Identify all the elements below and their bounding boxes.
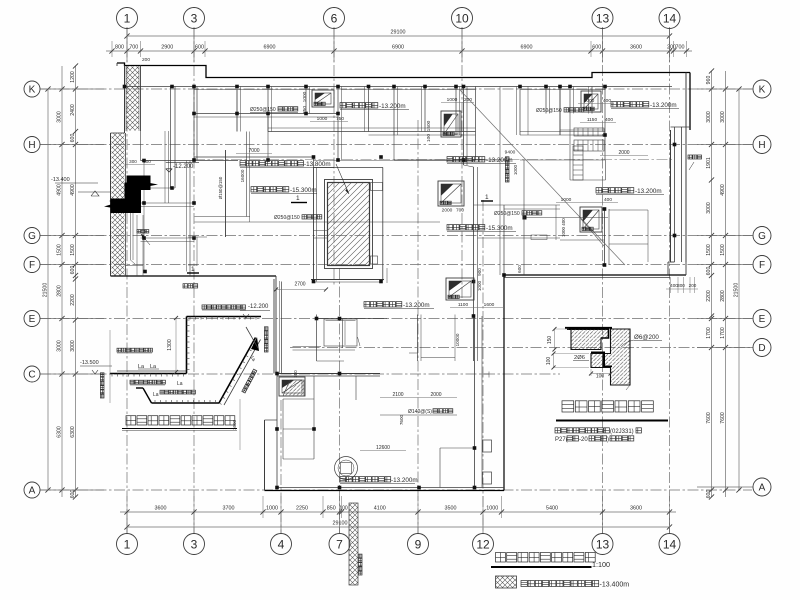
core block outer walls	[313, 168, 315, 282]
grid axis circle 4	[271, 534, 292, 555]
svg-text:600: 600	[195, 45, 204, 51]
svg-text:700: 700	[456, 208, 464, 214]
svg-text:700: 700	[676, 45, 685, 51]
svg-text:13: 13	[596, 537, 610, 551]
grid axis circle 3	[184, 534, 205, 555]
svg-text:200: 200	[142, 57, 150, 63]
right dimension chains	[711, 71, 713, 497]
svg-text:1700: 1700	[720, 327, 726, 339]
detail1 left slab line	[110, 373, 187, 375]
svg-text:1300: 1300	[167, 339, 173, 351]
lower-left block left edge	[264, 420, 266, 491]
left wing bottom edge (thick)	[111, 275, 277, 277]
svg-text:-13.400: -13.400	[51, 177, 70, 183]
partition x=175	[174, 87, 176, 189]
partition x=170.5	[170, 87, 172, 189]
partition x=520	[519, 87, 521, 136]
grid axis circle A	[24, 482, 40, 498]
svg-text:400: 400	[603, 98, 611, 104]
svg-text:Ø250@150: Ø250@150	[494, 211, 520, 217]
svg-text:3000: 3000	[720, 111, 726, 123]
partition x=475.5	[475, 87, 477, 161]
grid line G (horizontal)	[40, 235, 752, 237]
svg-text:G: G	[758, 231, 766, 242]
svg-text:Ø150@150: Ø150@150	[218, 176, 223, 199]
partition x=368.5	[368, 87, 370, 132]
svg-text:): )	[607, 437, 609, 443]
extra room walls near grid3 mid	[195, 216, 251, 218]
svg-text:10: 10	[455, 11, 469, 25]
svg-text:1500: 1500	[426, 120, 432, 131]
svg-text:3500: 3500	[445, 506, 457, 512]
svg-text:(02J331): (02J331)	[610, 429, 634, 435]
svg-text:1: 1	[191, 266, 195, 273]
bottom overall dimension 29100	[127, 526, 670, 528]
svg-text:200: 200	[689, 283, 697, 288]
svg-text:3000: 3000	[57, 340, 63, 352]
svg-text:200: 200	[293, 370, 298, 378]
sump pit symbol	[580, 207, 602, 232]
svg-text:E: E	[29, 314, 36, 325]
svg-text:200: 200	[464, 97, 472, 103]
top overall dimension 29100	[127, 35, 670, 37]
partition x=456	[455, 87, 457, 136]
sump label top-right	[611, 102, 649, 107]
leader texts small left	[117, 348, 152, 352]
grid axis circle K	[753, 80, 771, 98]
grid axis circle 1	[117, 534, 138, 555]
building bottom edge of right section (double)	[504, 274, 686, 276]
detail1 vertical drop	[186, 317, 188, 374]
svg-text:21500: 21500	[43, 283, 49, 298]
svg-text:2000: 2000	[442, 208, 453, 214]
svg-text:2800: 2800	[720, 290, 726, 302]
partition x=546	[545, 87, 547, 114]
grid line 9 (vertical)	[417, 120, 419, 533]
svg-text:-13.500: -13.500	[80, 360, 99, 366]
partition x=306	[305, 87, 307, 114]
svg-text:7000: 7000	[248, 148, 259, 154]
svg-text:900: 900	[477, 268, 482, 276]
svg-text:4100: 4100	[374, 506, 386, 512]
black wall infill middle column	[125, 183, 142, 214]
grid axis circle 10	[452, 8, 473, 29]
svg-text:29100: 29100	[333, 521, 348, 527]
vertical annotation line x=225.5	[225, 150, 227, 237]
grid line E (horizontal)	[40, 318, 752, 320]
svg-text:1500: 1500	[706, 244, 712, 256]
svg-text:3000: 3000	[706, 202, 712, 214]
svg-text:1000: 1000	[447, 97, 458, 103]
rotated annotation near x=509	[505, 157, 509, 182]
svg-text:600: 600	[70, 134, 76, 143]
wall on grid10: upper 463.5/467, jog, lower 473.5/477.5	[463, 87, 465, 166]
svg-text:12: 12	[476, 537, 490, 551]
svg-text:2200: 2200	[706, 290, 712, 302]
svg-text:4: 4	[278, 537, 285, 551]
grid line F (horizontal)	[40, 264, 752, 266]
partition x=425	[424, 87, 426, 132]
extra top-band partitions / wall doubles	[194, 89, 313, 91]
rotated side labels	[100, 373, 104, 398]
svg-text:G: G	[28, 231, 36, 242]
svg-text:2100: 2100	[392, 392, 403, 398]
text 集水坑顶标高-13.200m (top)	[340, 103, 378, 108]
svg-text:600: 600	[592, 45, 601, 51]
hatch wedge left of pump pit	[283, 380, 304, 396]
core hatched rectangle (tower core, diag hatch)	[325, 180, 373, 269]
svg-text:600: 600	[706, 490, 712, 499]
detail2 ear small hatch piece	[591, 354, 603, 368]
svg-text:9400: 9400	[505, 150, 516, 156]
svg-text:A: A	[29, 486, 36, 497]
legend hatched box	[496, 576, 517, 588]
svg-text:2900: 2900	[161, 45, 173, 51]
svg-text:-15.300m: -15.300m	[486, 225, 513, 232]
building outer wall: top-left wing	[117, 63, 690, 78]
detail2 left slab (hatched)	[567, 328, 609, 330]
label 边局部区域内筏板顶标高-13.800m	[240, 161, 304, 166]
svg-text:1000: 1000	[486, 506, 498, 512]
svg-text:1901: 1901	[706, 157, 712, 169]
svg-text:3600: 3600	[155, 506, 167, 512]
partition x=268	[267, 87, 269, 132]
sump pit symbol	[438, 181, 464, 206]
right section partitions additions	[560, 129, 605, 131]
svg-text:2Ø6: 2Ø6	[574, 355, 585, 361]
grid axis circle 3	[184, 8, 205, 29]
detail2 thick top edge	[565, 327, 612, 329]
grid axis circle H	[24, 137, 40, 153]
center court partitions	[314, 160, 476, 162]
svg-text:-13.400m: -13.400m	[600, 582, 630, 589]
top dimension chain	[106, 50, 692, 52]
svg-text:3000: 3000	[706, 111, 712, 123]
svg-text:400: 400	[604, 197, 612, 203]
svg-text:3600: 3600	[630, 45, 642, 51]
svg-text:Ø140@(S): Ø140@(S)	[408, 409, 432, 415]
building outer wall: right edge (double)	[689, 73, 691, 131]
svg-text:7600: 7600	[706, 412, 712, 424]
bottom dimension chain	[120, 511, 676, 513]
partition x=592	[591, 87, 593, 114]
svg-text:600: 600	[70, 266, 76, 275]
grid axis circle K	[24, 81, 40, 97]
svg-text:A: A	[759, 483, 766, 494]
partition x=197	[196, 87, 198, 161]
svg-text:D: D	[758, 343, 765, 354]
svg-text:E: E	[759, 314, 766, 325]
wall below grid K (top room band)	[125, 86, 673, 88]
extend walls x=570 and x=605	[569, 114, 571, 181]
grid axis circle 12	[473, 534, 494, 555]
grid axis circle C	[24, 366, 40, 382]
left dimension chains	[75, 66, 77, 497]
svg-text:1000: 1000	[477, 280, 482, 291]
construction diagonal line	[460, 90, 625, 265]
sump pit symbol	[441, 111, 461, 137]
svg-text:5400: 5400	[546, 506, 558, 512]
svg-text:29100: 29100	[391, 30, 406, 36]
partition x=570	[569, 87, 571, 114]
svg-text:H: H	[28, 140, 35, 151]
grid axis circle A	[753, 478, 771, 496]
svg-text:P27(: P27(	[555, 437, 568, 443]
horizontal partition lines top band	[194, 113, 338, 115]
grid line D (horizontal)	[290, 347, 752, 349]
black spike right	[150, 183, 158, 186]
label 集油坑顶标高-13.200m right of grid10	[447, 157, 485, 162]
left wing inner partitions	[141, 202, 195, 204]
svg-text:C: C	[28, 370, 35, 381]
main title 筏板结构平面布置图	[496, 553, 596, 563]
grid line 14 (vertical)	[669, 28, 671, 533]
step on x=483 wall	[483, 373, 489, 375]
svg-text:10000: 10000	[455, 333, 460, 346]
grid axis circle H	[753, 136, 771, 154]
svg-text:-13.200m: -13.200m	[635, 188, 662, 195]
extra centerline y=159.5	[194, 159, 672, 161]
sump pit symbol	[581, 91, 601, 112]
svg-text:14: 14	[663, 11, 677, 25]
detail1 bottom slab line	[152, 402, 220, 404]
svg-text:Ø250@150: Ø250@150	[536, 108, 562, 114]
left wall hatched strip lower	[112, 134, 125, 276]
svg-text:16000: 16000	[240, 169, 245, 182]
grid line C (horizontal)	[40, 373, 560, 375]
left outer wall lower (hatched strip zone)	[110, 133, 112, 276]
grid line 4 (vertical)	[280, 400, 282, 533]
svg-text:3000: 3000	[70, 340, 76, 352]
svg-text:2200: 2200	[70, 294, 76, 306]
svg-text:300: 300	[143, 159, 151, 164]
sump pit symbol	[312, 90, 334, 107]
svg-text:1000: 1000	[561, 226, 566, 237]
svg-text:1500: 1500	[70, 244, 76, 256]
mid strip partition walls y=316/347	[317, 318, 388, 320]
grid axis circle 14	[659, 8, 680, 29]
legend text	[521, 581, 599, 587]
grid axis circle 13	[592, 534, 613, 555]
svg-text:1000: 1000	[561, 197, 572, 203]
svg-text:1500: 1500	[720, 244, 726, 256]
grid axis circle 9	[408, 534, 429, 555]
detail1 lower step diagonal	[143, 388, 152, 403]
svg-text:1000: 1000	[584, 98, 595, 104]
svg-text:960: 960	[706, 76, 712, 85]
grid axis circle 7	[329, 534, 350, 555]
svg-text:3600: 3600	[630, 506, 642, 512]
garage ramp label bottom-left	[183, 284, 198, 288]
core side tabs	[371, 183, 383, 191]
svg-text:-13.200m: -13.200m	[403, 302, 430, 309]
small room in court	[324, 319, 357, 346]
grid line A (horizontal)	[40, 489, 752, 491]
grid line 10 (vertical)	[461, 28, 463, 300]
detail1 black arrow on slope	[251, 337, 259, 351]
svg-text:750: 750	[336, 116, 344, 122]
svg-text:850: 850	[327, 506, 336, 512]
detail1 top-right slope hatch	[246, 327, 258, 348]
svg-text:4900: 4900	[57, 184, 63, 196]
detail2 bottom arrow	[626, 385, 630, 390]
grid axis circle G	[24, 228, 40, 244]
partition x=394	[393, 87, 395, 136]
svg-text:La: La	[153, 392, 159, 398]
svg-text:100: 100	[596, 374, 605, 380]
small black column blobs at junctions	[192, 85, 196, 89]
svg-text:7: 7	[336, 537, 343, 551]
svg-text:3: 3	[191, 11, 198, 25]
detail1 big diagonal slope	[219, 338, 256, 404]
black wall infill upper rect	[127, 176, 151, 183]
svg-text:1: 1	[485, 194, 489, 201]
svg-text:1: 1	[124, 11, 131, 25]
label 集水坑顶标高-13.200m (right mid)	[596, 188, 634, 193]
svg-text:2800: 2800	[57, 285, 63, 297]
text 同筏板顶部纵向钢筋	[202, 305, 246, 309]
svg-text:2400: 2400	[70, 104, 76, 116]
svg-text:-13.200m: -13.200m	[379, 103, 406, 110]
svg-text:3000: 3000	[57, 111, 63, 123]
grid axis circle E	[753, 310, 771, 328]
svg-text:6300: 6300	[70, 426, 76, 438]
staircase bars right section	[574, 128, 604, 136]
svg-text:2000: 2000	[430, 392, 441, 398]
svg-text:13: 13	[596, 11, 610, 25]
sump pit symbol	[279, 377, 305, 396]
grid line K (horizontal)	[40, 88, 752, 90]
sump leader arrow left wing	[141, 234, 150, 245]
neck wall connecting mid and lower block	[273, 279, 275, 374]
svg-text:-12.200: -12.200	[248, 304, 269, 310]
grid line 6 (vertical)	[333, 28, 335, 285]
svg-text:1600: 1600	[484, 302, 495, 308]
svg-text:6900: 6900	[521, 45, 533, 51]
svg-text:21500: 21500	[734, 283, 740, 298]
small ledge rects on x=504 wall	[483, 440, 492, 452]
grid axis circle 13	[592, 8, 613, 29]
left wing inner double walls	[143, 161, 145, 272]
wall x=524 extended	[523, 160, 525, 275]
svg-text:1200: 1200	[70, 71, 76, 83]
core block bottom wall	[311, 279, 384, 281]
lower-left block inner partitions	[283, 398, 314, 400]
grid axis circle 6	[324, 8, 345, 29]
svg-text:F: F	[759, 260, 765, 271]
stair vertical flight	[573, 146, 583, 180]
svg-text:12600: 12600	[376, 445, 390, 451]
grid line 7 (vertical)	[339, 268, 341, 533]
step near top-left corner	[116, 63, 118, 66]
svg-text:6900: 6900	[392, 45, 404, 51]
section cut hatched bar below plan	[349, 503, 358, 585]
svg-text:6300: 6300	[57, 426, 63, 438]
svg-text:2700: 2700	[294, 282, 305, 288]
svg-text:800: 800	[115, 45, 124, 51]
svg-text:2000: 2000	[618, 150, 629, 156]
svg-text:100: 100	[426, 134, 432, 142]
building bottom edge lower-left block (double)	[265, 490, 505, 492]
detail2 step thick edge	[601, 329, 609, 338]
svg-text:7600: 7600	[720, 412, 726, 424]
svg-text:1: 1	[124, 537, 131, 551]
svg-text:14: 14	[663, 537, 677, 551]
svg-text:6900: 6900	[264, 45, 276, 51]
svg-text:750: 750	[302, 106, 308, 114]
grid axis circle G	[753, 227, 771, 245]
partition x=560	[559, 87, 561, 136]
black wall infill lower-left	[111, 199, 125, 214]
grid line 12 (vertical)	[482, 200, 484, 533]
svg-text:La: La	[177, 381, 183, 387]
grid line 13 (vertical)	[602, 28, 604, 533]
svg-text:-13.200m: -13.200m	[391, 477, 418, 484]
partition x=194	[193, 87, 195, 161]
svg-text:1: 1	[296, 195, 300, 202]
svg-text:1000: 1000	[513, 164, 518, 175]
svg-text:Ø250@150: Ø250@150	[274, 215, 300, 221]
svg-text:F: F	[29, 260, 35, 271]
svg-text:600: 600	[706, 267, 712, 276]
detail2 notes	[555, 428, 609, 433]
svg-text:100: 100	[546, 357, 552, 366]
svg-text:2250: 2250	[296, 506, 308, 512]
svg-text:300: 300	[677, 283, 685, 288]
rotated annotation next to section bar	[358, 554, 362, 575]
lower-left block top edge	[277, 373, 380, 375]
svg-text:1150: 1150	[587, 117, 598, 123]
detail1 title 筏板不同标高做法大样	[126, 416, 235, 425]
svg-text:-20: -20	[579, 437, 588, 443]
mid-level rooms x475-504	[467, 159, 504, 161]
level mark	[166, 169, 172, 172]
svg-text:-12.200: -12.200	[173, 164, 194, 170]
grid line 1 (vertical)	[126, 28, 128, 533]
svg-text:-13.200m: -13.200m	[650, 102, 677, 109]
svg-text:1500: 1500	[57, 244, 63, 256]
sump pit symbol	[446, 278, 474, 300]
svg-text:K: K	[759, 85, 766, 96]
wall pair x=246.5 mid-left	[246, 132, 248, 217]
grid axis circle F	[24, 257, 40, 273]
label 中水处理机房集水坑顶… (bottom)	[340, 477, 391, 482]
svg-text:1700: 1700	[706, 327, 712, 339]
partition x=338	[337, 87, 339, 161]
svg-text:7600: 7600	[399, 414, 404, 425]
svg-text:6: 6	[331, 11, 338, 25]
svg-text:4900: 4900	[720, 184, 726, 196]
wall pair at grid9 in court	[417, 315, 419, 362]
svg-text:1100: 1100	[458, 302, 469, 308]
svg-text:700: 700	[129, 45, 138, 51]
svg-text:3: 3	[191, 537, 198, 551]
grid axis circle F	[753, 256, 771, 274]
svg-text:150: 150	[547, 336, 553, 345]
svg-text:H: H	[758, 140, 765, 151]
svg-text:100: 100	[339, 506, 348, 512]
svg-text:-15.300m: -15.300m	[290, 187, 317, 194]
right section room partitions	[559, 87, 561, 136]
svg-text:1:100: 1:100	[592, 560, 610, 569]
svg-text:300: 300	[129, 159, 137, 164]
grid axis circle E	[24, 311, 40, 327]
svg-text:K: K	[29, 85, 36, 96]
grid axis circle D	[753, 339, 771, 357]
label 集水坑顶标高-13.200m (mid)	[364, 302, 402, 307]
dashed opening rectangle	[531, 235, 547, 240]
detail2 right wall (hatched)	[603, 329, 630, 385]
